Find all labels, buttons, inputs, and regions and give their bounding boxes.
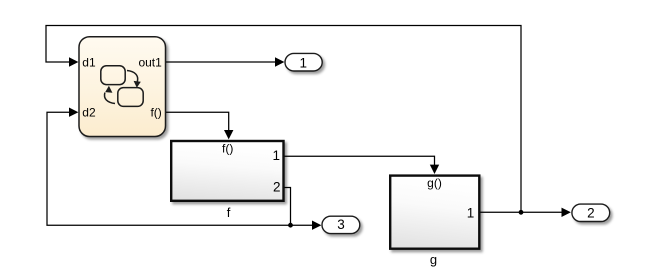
- chart icon state A: [101, 66, 125, 85]
- wire f port1 to g block: [285, 156, 435, 165]
- arrowhead into d1: [69, 57, 78, 66]
- wire d2 feedback (bottom loop): [47, 112, 291, 225]
- junction dot at g out branch: [519, 210, 524, 215]
- svg-text:d2: d2: [82, 106, 96, 120]
- svg-text:1: 1: [467, 205, 475, 220]
- svg-text:g(): g(): [427, 176, 442, 190]
- svg-text:3: 3: [337, 217, 345, 232]
- g subsystem block: [390, 176, 479, 249]
- arrowhead into outport 2: [562, 208, 571, 217]
- chart icon transition arrow left (B to A): [104, 93, 115, 104]
- arrowhead into g top: [430, 165, 439, 174]
- outport 1: [285, 53, 322, 71]
- wire g port1 to outport 2: [481, 211, 563, 213]
- svg-text:out1: out1: [138, 55, 162, 69]
- Stateflow chart block: [79, 37, 166, 137]
- outport 2: [572, 204, 610, 221]
- wire feedback g out1 to d1 (top loop): [46, 26, 521, 213]
- arrowhead into f top: [224, 130, 233, 139]
- wire out1 to outport 1: [166, 61, 276, 63]
- chart icon state B: [118, 88, 143, 107]
- svg-text:d1: d1: [82, 55, 96, 69]
- outport 3: [322, 216, 360, 233]
- chart icon transition arrow right (A to B): [127, 71, 138, 82]
- svg-text:f(): f(): [222, 141, 233, 155]
- svg-text:g: g: [430, 252, 437, 267]
- junction dot at f2 branch: [288, 223, 293, 228]
- arrowhead into d2: [69, 108, 78, 117]
- svg-text:1: 1: [272, 148, 280, 163]
- svg-text:2: 2: [587, 206, 595, 221]
- svg-text:2: 2: [273, 180, 281, 195]
- arrowhead into outport 3: [312, 221, 321, 230]
- f subsystem block: [171, 141, 283, 201]
- wire chart f() to f block: [166, 112, 229, 130]
- wire f port2 down to junction and outport 3: [284, 188, 313, 226]
- arrowhead into outport 1: [275, 57, 284, 66]
- svg-text:f: f: [227, 205, 231, 220]
- svg-text:f(): f(): [150, 106, 161, 120]
- svg-text:1: 1: [300, 55, 308, 70]
